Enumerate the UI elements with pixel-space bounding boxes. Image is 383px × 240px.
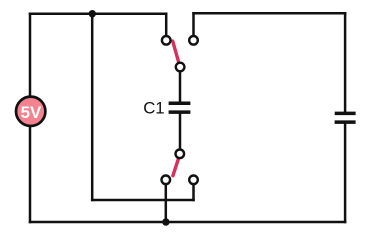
switch SW1 lever (top, thrown left) — [173, 41, 179, 61]
wire right rail upper — [344, 13, 347, 111]
junction node top — [89, 10, 96, 17]
wire C1 to bottom pole — [179, 114, 182, 149]
wire top pole to C1 — [179, 72, 182, 101]
wire left rail lower — [29, 127, 32, 222]
svg-text:C1: C1 — [143, 98, 164, 117]
switch SW2 left throw contact — [162, 176, 171, 185]
wire lower cross horizontal — [92, 199, 193, 202]
wire middle vertical x=93 — [91, 14, 94, 200]
capacitor C2 plates (right) — [335, 113, 356, 122]
switch SW1 left throw contact — [162, 36, 171, 45]
wire left rail upper — [29, 14, 32, 96]
switch SW1 right throw contact — [189, 36, 198, 45]
switch SW2 pole — [176, 150, 185, 159]
switch SW1 pole — [176, 63, 185, 72]
wire right rail lower — [344, 124, 347, 222]
wire top bus right segment — [194, 12, 346, 15]
svg-text:5V: 5V — [21, 103, 42, 122]
wire right-bottom contact drop — [192, 185, 195, 200]
wire top-right contact riser — [192, 13, 195, 35]
wire bottom-left contact to bus — [165, 185, 168, 222]
wire top-left contact drop — [165, 14, 168, 36]
switch SW2 lever (bottom, thrown left) — [173, 159, 179, 176]
junction node bottom — [162, 218, 169, 225]
wire top bus left segment — [30, 12, 166, 15]
wire bottom bus — [30, 221, 345, 224]
switch SW2 right throw contact — [189, 176, 198, 185]
voltage source V1 5V — [16, 97, 45, 126]
capacitor C1 plates — [169, 103, 191, 112]
